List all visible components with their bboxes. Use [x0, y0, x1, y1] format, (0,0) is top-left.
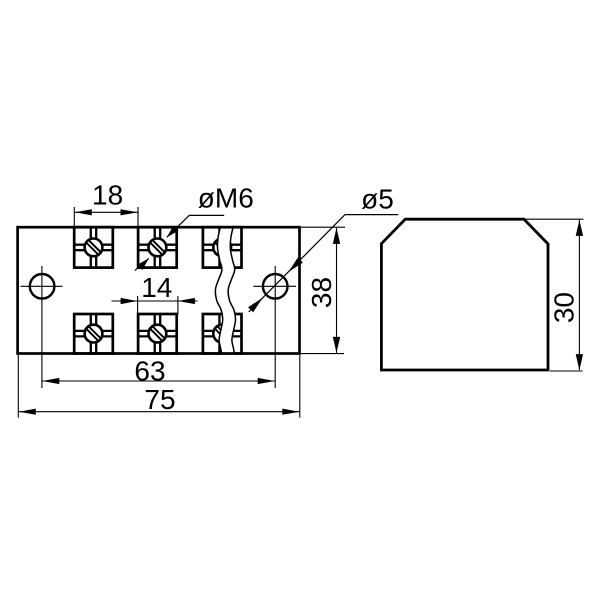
svg-text:30: 30: [548, 292, 579, 323]
dimension 63: [42, 356, 275, 387]
screw terminal B2: [138, 314, 177, 354]
svg-text:75: 75: [144, 384, 175, 415]
top view body outline 75x38: [18, 227, 300, 353]
svg-text:ø5: ø5: [361, 184, 394, 215]
dimension 75: [18, 355, 300, 418]
label oM6 leader: [135, 183, 254, 271]
screw terminal B3: [203, 314, 242, 354]
screw terminal A2: [138, 227, 177, 267]
dimension 38: [301, 227, 345, 353]
svg-text:18: 18: [92, 179, 123, 210]
svg-text:38: 38: [306, 277, 337, 308]
dimension 18: [74, 179, 138, 227]
dimension 14: [112, 272, 198, 314]
svg-text:øM6: øM6: [198, 183, 254, 214]
svg-text:14: 14: [141, 272, 172, 303]
dimension 30: [525, 219, 584, 371]
break band (wavy break lines): [215, 226, 235, 355]
screw terminal A3: [203, 227, 242, 267]
hole left (o5): [21, 266, 63, 388]
side view body outline with chamfers: [381, 219, 548, 370]
hole right (o5): [253, 266, 296, 388]
screw terminal A1: [74, 227, 113, 267]
screw terminal B1: [74, 314, 113, 354]
svg-text:63: 63: [134, 356, 165, 387]
label o5 leader: [248, 184, 398, 313]
